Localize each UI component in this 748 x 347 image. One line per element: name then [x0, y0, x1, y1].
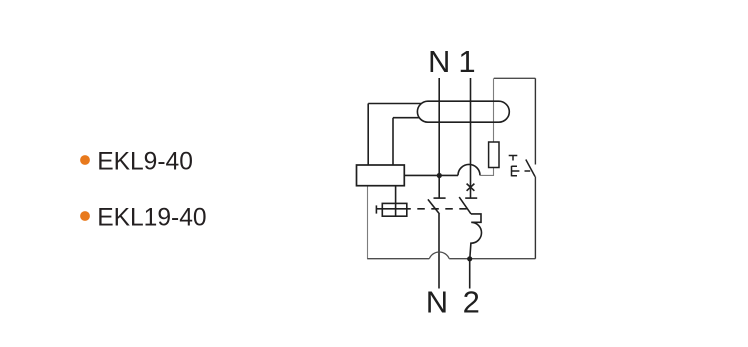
wire crossover arc over line 1: [458, 164, 480, 175]
mechanical linkage dashed: [417, 208, 469, 210]
wire 2 outgoing vertical: [469, 259, 471, 289]
phase winding loop (5-shape): [470, 214, 482, 259]
trip latch box: [382, 203, 407, 216]
junction node on line 2: [467, 256, 472, 261]
bullet dot EKL19-40: [80, 211, 90, 221]
wire inner vertical to relay: [392, 118, 394, 165]
test contact blade: [526, 160, 535, 177]
wire N lower vertical: [438, 214, 440, 289]
bullet dot EKL9-40: [80, 155, 90, 165]
contact N blade: [428, 199, 440, 214]
wire test circuit right vertical lower: [534, 177, 536, 259]
junction node on N line: [437, 173, 442, 178]
wire node to test resistor (gray): [480, 168, 494, 176]
svg-text:N: N: [428, 44, 450, 79]
test button linkage dash: [525, 170, 531, 172]
crossover arc over N line: [429, 252, 449, 259]
wire test circuit right vertical upper: [534, 78, 536, 164]
wire left outer top horizontal: [368, 103, 421, 105]
svg-text:N: N: [426, 284, 448, 319]
wire test resistor to toroid (gray): [493, 78, 495, 142]
contact N fixed tick: [434, 197, 446, 199]
wire inner horizontal to toroid: [393, 117, 420, 119]
wire bottom horizontal right: [449, 258, 535, 260]
wire left outer vertical upper: [367, 104, 369, 166]
current transformer toroid: [417, 101, 509, 122]
svg-text:EKL9-40: EKL9-40: [97, 149, 193, 176]
trip latch vertical link: [395, 186, 397, 217]
wire left outer vertical lower (gray): [367, 186, 369, 259]
wire relay output to node: [404, 174, 458, 176]
wire test circuit top horizontal: [494, 77, 536, 79]
trip latch mid bar: [377, 208, 411, 210]
svg-text:1: 1: [458, 44, 475, 79]
contact phase fixed tick: [465, 197, 477, 199]
test button symbol: [512, 166, 520, 177]
svg-text:EKL19-40: EKL19-40: [97, 205, 206, 232]
svg-text:2: 2: [463, 284, 480, 319]
wire bottom horizontal left: [367, 258, 429, 260]
wire 1 incoming vertical: [470, 78, 472, 198]
wire node to N contact: [438, 175, 440, 198]
contact phase blade: [459, 197, 471, 214]
cross marker on phase line: [467, 184, 475, 191]
wire N incoming vertical: [438, 78, 440, 175]
test button label T: [509, 156, 518, 161]
trip latch end bar: [375, 205, 377, 213]
trip relay box: [357, 165, 405, 186]
test resistor: [489, 142, 499, 168]
